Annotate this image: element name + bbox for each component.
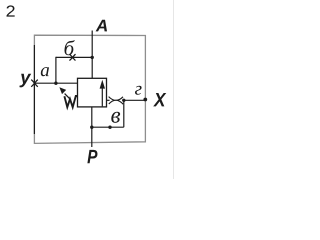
wire: b pilot line vertical drop xyxy=(55,57,57,83)
junction dot node g branch xyxy=(122,99,125,102)
port y label xyxy=(19,74,31,88)
subplate frame xyxy=(34,35,145,143)
valve flow path arrow xyxy=(101,85,103,106)
closed-port cross at node g xyxy=(109,97,124,105)
spring xyxy=(64,96,77,107)
figure number 2 xyxy=(7,5,15,16)
port X label xyxy=(153,93,166,106)
wire: Y drain line along left frame edge xyxy=(33,45,35,134)
wire: a line horizontal to valve xyxy=(34,82,77,84)
wire: g line stub from valve xyxy=(107,99,110,101)
junction dot node a xyxy=(54,82,57,85)
port P label xyxy=(87,150,97,163)
node v label xyxy=(111,112,120,123)
node b label xyxy=(65,40,75,55)
faint page rule at right xyxy=(173,0,175,179)
wire: A line vertical xyxy=(91,31,93,79)
wire: v line horizontal xyxy=(92,126,124,128)
node g label xyxy=(135,86,142,95)
wire: g line to frame edge xyxy=(122,99,145,101)
junction dot port X at frame edge xyxy=(143,98,147,102)
port A label xyxy=(96,20,107,32)
junction dot node v on P line xyxy=(90,126,93,129)
junction dot on v line xyxy=(108,126,111,129)
wire: P line vertical xyxy=(91,107,93,147)
closed-port cross at port y xyxy=(31,80,38,87)
adjustment arrow through spring xyxy=(65,94,71,100)
closed-port cross at node b xyxy=(69,54,75,60)
valve body box xyxy=(78,78,107,107)
node a label xyxy=(41,67,49,76)
junction dot node b on A line xyxy=(91,56,94,59)
wire: b pilot line horizontal xyxy=(56,56,92,58)
wire: v branch vertical xyxy=(123,100,125,127)
